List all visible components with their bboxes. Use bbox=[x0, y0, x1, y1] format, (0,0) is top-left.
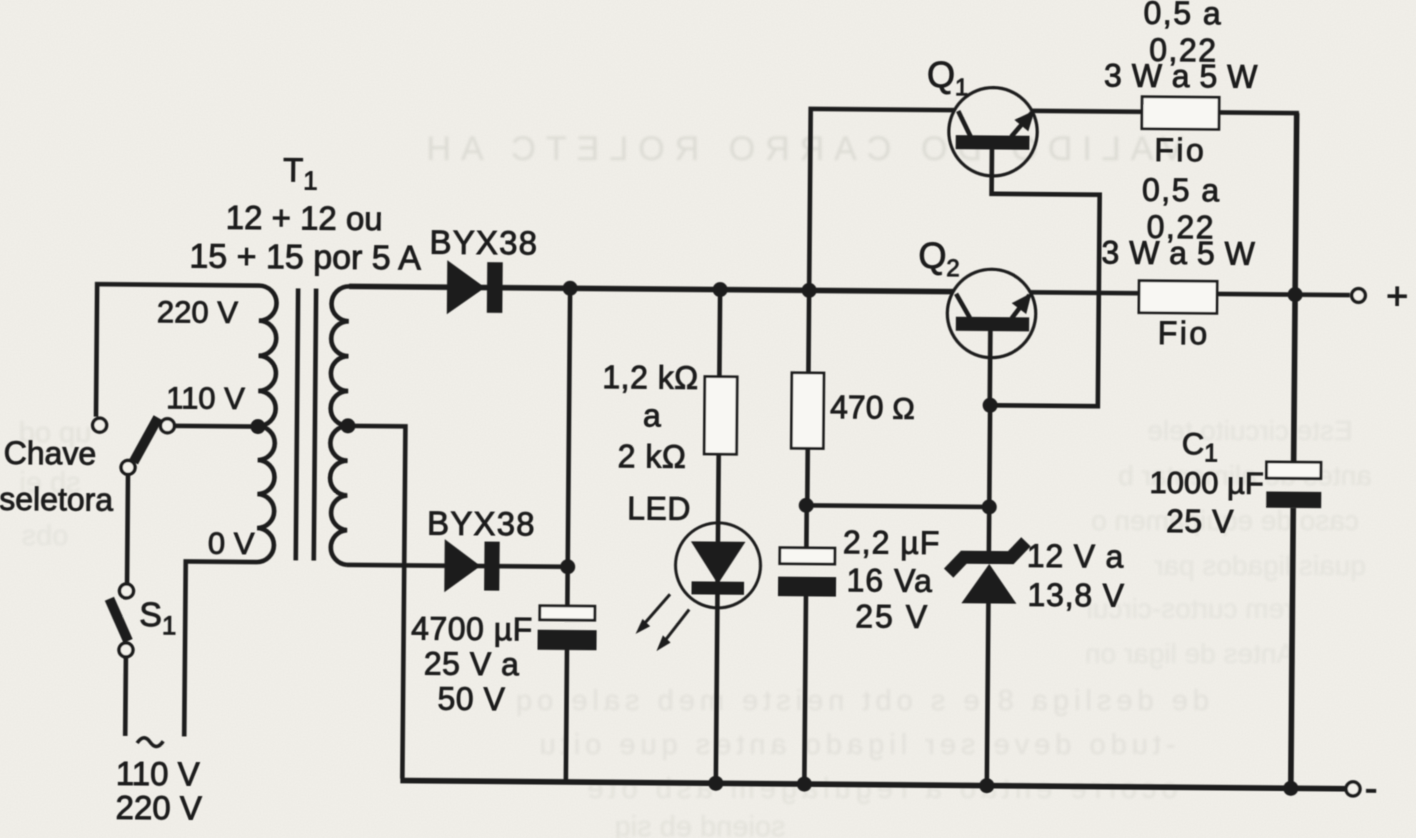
svg-text:-: - bbox=[1365, 768, 1378, 810]
capacitor 2,2uF top plate bbox=[780, 548, 835, 564]
wire C1 to ground bus bbox=[1291, 508, 1293, 788]
transformer T1 secondary winding bbox=[329, 286, 349, 565]
svg-text:220 V: 220 V bbox=[157, 294, 239, 330]
svg-text:BYX38: BYX38 bbox=[429, 224, 538, 262]
svg-text:25 V: 25 V bbox=[1166, 503, 1234, 540]
node tee right bbox=[982, 499, 997, 514]
resistor R2 Fio box bbox=[1139, 281, 1217, 314]
wire rectifier node down bbox=[567, 288, 570, 605]
wire 470 to tee bbox=[805, 448, 810, 505]
svg-text:110 V: 110 V bbox=[166, 380, 245, 416]
svg-text:3 W a 5 W: 3 W a 5 W bbox=[1101, 234, 1255, 271]
label ~ mains bbox=[137, 738, 163, 747]
transistor Q1 emitter lead bbox=[1011, 112, 1032, 136]
svg-text:de desliga 8 e s obt neiste me: de desliga 8 e s obt neiste meb sale oq bbox=[511, 685, 1209, 717]
diode D1 cathode bar bbox=[487, 262, 503, 313]
wire bottom ground bus bbox=[400, 781, 1345, 789]
transistor Q2 circle bbox=[947, 269, 1036, 358]
switch S1 top contact bbox=[119, 584, 133, 598]
LED arrow 2 bbox=[663, 609, 689, 643]
wire S1 to mains bbox=[123, 658, 128, 736]
svg-text:15 + 15 por 5 A: 15 + 15 por 5 A bbox=[189, 237, 421, 277]
node base junction bbox=[983, 398, 998, 413]
terminal minus bbox=[1346, 782, 1360, 796]
capacitor 2,2uF bottom plate bbox=[778, 577, 836, 597]
node LED branch top bbox=[713, 282, 728, 297]
LED triangle bbox=[691, 541, 746, 584]
wire R2 to + terminal bbox=[1217, 294, 1350, 295]
transistor Q1 emitter arrow bbox=[1014, 110, 1034, 131]
selector contact 220V bbox=[93, 418, 107, 432]
svg-text:2 kΩ: 2 kΩ bbox=[618, 438, 687, 475]
svg-text:0,5 a: 0,5 a bbox=[1143, 0, 1222, 31]
wire Q2 base lead bbox=[987, 331, 992, 405]
svg-text:seletora: seletora bbox=[0, 481, 113, 518]
svg-text:50 V: 50 V bbox=[437, 681, 505, 718]
node 110V tap on winding bbox=[250, 419, 265, 434]
transistor Q1 circle bbox=[948, 87, 1037, 176]
wire secondary center tap bbox=[345, 426, 406, 779]
transistor Q2 collector lead bbox=[956, 294, 970, 318]
terminal plus bbox=[1352, 289, 1366, 303]
switch S1 bottom contact bbox=[119, 643, 133, 657]
wire top-left from 220V tap bbox=[96, 284, 259, 418]
wire 2,2uF to ground bbox=[804, 596, 806, 783]
svg-text:soiend eb sig: soiend eb sig bbox=[615, 811, 786, 838]
svg-text:BYX38: BYX38 bbox=[427, 505, 536, 543]
transistor Q1 collector lead bbox=[958, 111, 971, 136]
node ground zener bbox=[979, 778, 994, 793]
LED cathode bar bbox=[691, 581, 744, 594]
svg-text:quais ligados par: quais ligados par bbox=[1154, 550, 1366, 581]
wire 110V tap bbox=[176, 424, 258, 429]
svg-text:VALIDO DO CARRO ROLETC AH: VALIDO DO CARRO ROLETC AH bbox=[416, 130, 1183, 168]
wire tee horizontal bbox=[806, 505, 989, 507]
wire pole to S1 bbox=[125, 475, 131, 582]
svg-text:25 V: 25 V bbox=[855, 598, 929, 635]
node rectifier output bbox=[563, 281, 578, 296]
svg-text:0,5 a: 0,5 a bbox=[1142, 172, 1221, 209]
transistor Q2 emitter arrow bbox=[1012, 293, 1032, 314]
svg-text:12 + 12 ou: 12 + 12 ou bbox=[226, 199, 383, 237]
svg-text:110 V: 110 V bbox=[116, 755, 200, 793]
transformer T1 primary winding bbox=[257, 286, 277, 563]
wire R1 to output riser bbox=[1216, 112, 1297, 462]
resistor 1,2k-2k box bbox=[704, 377, 737, 455]
diode D1 BYX38 triangle bbox=[447, 260, 485, 314]
capacitor 4700uF bottom plate bbox=[537, 630, 596, 651]
transformer T1 core bbox=[296, 288, 298, 560]
svg-text:220 V: 220 V bbox=[115, 789, 202, 827]
selector switch arm bbox=[134, 417, 158, 462]
svg-text:25 V a: 25 V a bbox=[424, 646, 520, 683]
wire tee to 2,2uF bbox=[804, 505, 809, 547]
wire Q1 emitter to R1 bbox=[1032, 109, 1142, 115]
wire 0V tap bbox=[184, 561, 257, 737]
svg-text:3 W a 5 W: 3 W a 5 W bbox=[1104, 57, 1258, 94]
svg-text:470 Ω: 470 Ω bbox=[830, 389, 915, 426]
node ground C1 bbox=[1283, 781, 1298, 796]
wire 470 branch upper bbox=[806, 290, 811, 372]
switch S1 arm bbox=[109, 599, 128, 641]
svg-text:13,8 V: 13,8 V bbox=[1027, 577, 1125, 614]
LED circle bbox=[675, 523, 761, 609]
resistor 470 box bbox=[791, 373, 824, 449]
zener diode bar bbox=[949, 541, 1026, 574]
wire Q1 collector riser bbox=[809, 109, 954, 292]
wire top rectified bus bbox=[349, 286, 953, 291]
svg-text:16 Va: 16 Va bbox=[846, 562, 933, 599]
svg-text:4700 µF: 4700 µF bbox=[411, 610, 533, 647]
LED arrow 1 bbox=[643, 594, 670, 625]
wire secondary bottom to D2 bbox=[347, 565, 568, 567]
transistor Q1 base bar bbox=[956, 135, 1030, 150]
selector switch pole bbox=[121, 460, 135, 474]
svg-text:Antes de ligar on: Antes de ligar on bbox=[1085, 638, 1295, 669]
capacitor 4700uF top plate bbox=[540, 606, 595, 620]
svg-text:obs: obs bbox=[22, 520, 69, 552]
resistor R1 Fio box bbox=[1142, 97, 1219, 130]
wire Q1 base jog bbox=[990, 149, 1100, 406]
wire resistor to LED and ground bbox=[716, 454, 719, 783]
svg-text:0 V: 0 V bbox=[208, 526, 255, 561]
svg-text:Chave: Chave bbox=[4, 435, 97, 472]
svg-text:Fio: Fio bbox=[1158, 315, 1210, 351]
node D2 junction bbox=[560, 559, 575, 574]
capacitor C1 top plate bbox=[1266, 462, 1321, 479]
node 470 branch top bbox=[802, 283, 817, 298]
selector contact 110V bbox=[160, 419, 174, 433]
svg-text:2,2 µF: 2,2 µF bbox=[843, 524, 941, 561]
wire Q2 emitter to R2 bbox=[1030, 290, 1139, 296]
svg-text:Este circuito tele: Este circuito tele bbox=[1147, 415, 1352, 446]
node tee left bbox=[799, 498, 814, 513]
wire output riser to C1 bbox=[1294, 113, 1297, 462]
wire zener to ground bbox=[987, 603, 989, 785]
transistor Q2 emitter lead bbox=[1012, 295, 1030, 318]
svg-text:Fio: Fio bbox=[1154, 132, 1206, 168]
node ground 2,2uF bbox=[797, 776, 812, 791]
node center tap bbox=[340, 418, 355, 433]
transistor Q2 base bar bbox=[956, 317, 1029, 332]
svg-text:a: a bbox=[643, 397, 661, 433]
wire zener branch bbox=[989, 405, 990, 555]
svg-text:+: + bbox=[1386, 276, 1409, 318]
node output junction bbox=[1288, 287, 1303, 302]
svg-text:12 V a: 12 V a bbox=[1027, 538, 1125, 575]
diode D2 BYX38 triangle bbox=[444, 539, 480, 592]
svg-text:1000 µF: 1000 µF bbox=[1149, 465, 1264, 501]
svg-text:1,2 kΩ: 1,2 kΩ bbox=[602, 359, 699, 396]
node ground LED bbox=[708, 776, 723, 791]
wire LED branch upper bbox=[717, 290, 722, 377]
svg-text:LED: LED bbox=[627, 490, 691, 527]
capacitor C1 bottom plate bbox=[1266, 491, 1321, 508]
zener diode triangle bbox=[961, 564, 1016, 604]
svg-text:-tudo deve ser ligado antes qu: -tudo deve ser ligado antes que oitu bbox=[534, 729, 1175, 761]
diode D2 cathode bar bbox=[484, 542, 500, 591]
wire 4700uF to ground bus bbox=[566, 650, 567, 782]
